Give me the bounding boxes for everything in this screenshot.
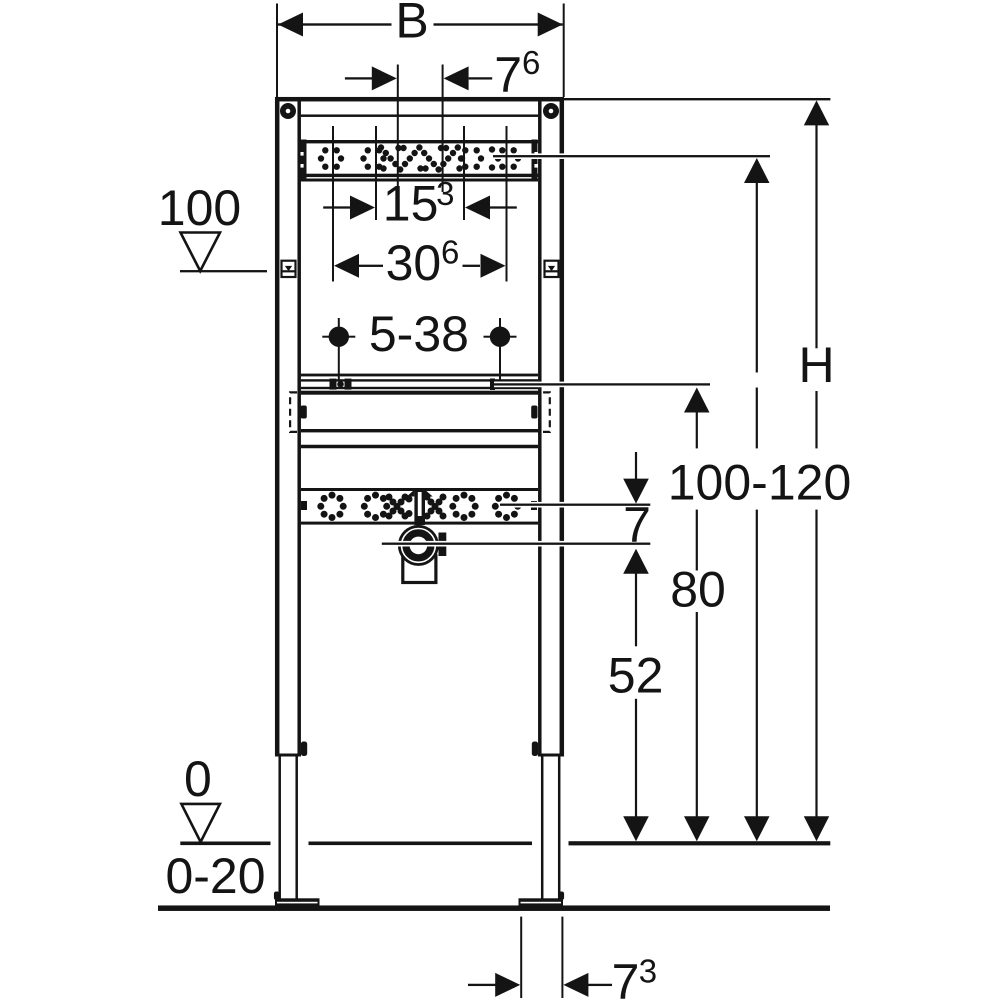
svg-text:100: 100 xyxy=(158,180,241,236)
svg-text:6: 6 xyxy=(522,44,540,81)
svg-text:7: 7 xyxy=(612,954,640,1000)
svg-text:B: B xyxy=(395,0,428,49)
svg-text:7: 7 xyxy=(494,47,522,103)
svg-text:3: 3 xyxy=(436,175,454,212)
svg-text:0: 0 xyxy=(184,751,212,807)
svg-text:6: 6 xyxy=(441,234,459,271)
svg-text:H: H xyxy=(798,337,834,393)
svg-text:100-120: 100-120 xyxy=(668,455,852,511)
svg-text:7: 7 xyxy=(623,497,651,553)
svg-text:30: 30 xyxy=(386,235,442,291)
svg-text:15: 15 xyxy=(383,176,439,232)
svg-text:3: 3 xyxy=(639,952,657,989)
svg-text:0-20: 0-20 xyxy=(165,848,265,904)
svg-text:5-38: 5-38 xyxy=(369,306,469,362)
svg-text:52: 52 xyxy=(608,648,664,704)
svg-text:80: 80 xyxy=(670,562,726,618)
